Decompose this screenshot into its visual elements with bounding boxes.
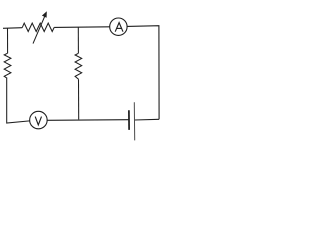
resistor left branch zigzag (4, 53, 11, 78)
wire: left vertical upper (7, 28, 9, 53)
wire: middle branch lower stub (78, 79, 80, 119)
rheostat body (variable resistor zigzag) (22, 23, 54, 31)
voltmeter U-V circle (30, 111, 48, 129)
rheostat wiper arrow shaft (33, 16, 45, 44)
wire: top-left horizontal (3, 27, 22, 30)
wire: rheostat to ammeter (through junction) (54, 26, 109, 29)
wire: bottom-right horizontal to battery positive (135, 118, 160, 121)
ammeter U-A circle (110, 18, 127, 35)
wire: voltmeter to bottom-left corner (7, 78, 30, 123)
node: top-left junction (7, 27, 9, 29)
wire: ammeter to top-right corner and right vertical (127, 26, 159, 120)
ammeter label A (115, 23, 123, 32)
wire: middle branch upper stub (77, 27, 79, 53)
rheostat wiper arrowhead (42, 11, 47, 18)
resistor middle branch zigzag (75, 53, 82, 79)
wire: battery negative to voltmeter (47, 119, 129, 122)
voltmeter label V (35, 117, 41, 125)
battery negative plate (short thick) (128, 110, 130, 130)
battery positive plate (long thin) (133, 102, 135, 140)
